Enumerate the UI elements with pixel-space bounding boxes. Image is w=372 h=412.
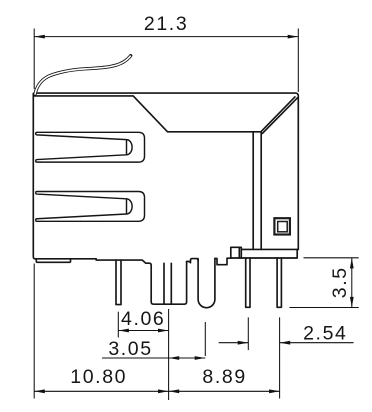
svg-text:2.54: 2.54 (303, 322, 347, 344)
svg-text:3.5: 3.5 (329, 266, 351, 298)
svg-text:8.89: 8.89 (202, 366, 246, 388)
svg-text:3.05: 3.05 (108, 338, 152, 360)
svg-text:4.06: 4.06 (121, 308, 165, 330)
svg-text:21.3: 21.3 (144, 13, 188, 35)
svg-text:10.80: 10.80 (70, 366, 127, 388)
